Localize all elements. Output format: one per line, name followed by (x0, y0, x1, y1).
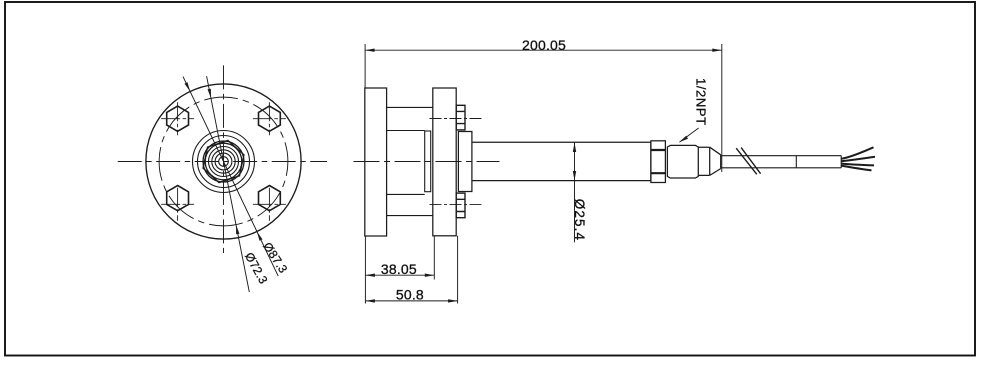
label 1/2NPT arrowhead (679, 136, 688, 143)
svg-text:1/2NPT: 1/2NPT (694, 78, 709, 126)
hub behind plate2 (458, 132, 472, 192)
cable gland collar (698, 147, 709, 175)
label text 1/2NPT (694, 78, 709, 126)
dim text 50.8 (396, 286, 424, 302)
bottom bolt (side view) nut (456, 193, 465, 218)
bolt B2 centermarks (253, 102, 286, 135)
probe cylinder (472, 142, 651, 180)
dim 38.05 arrowheads (365, 274, 434, 277)
cable gland cone (710, 147, 721, 175)
center boss circle r4.8 (219, 157, 229, 167)
dimension text D87.3 (260, 240, 290, 276)
flange plate 2 (right disc) (433, 88, 456, 236)
bolt B3 bottom-left hexagon (167, 186, 189, 211)
bolt B1 centermarks (161, 102, 194, 135)
flange outer circle (146, 84, 301, 239)
vertical centerline of flange (223, 65, 225, 253)
outer sleeve between plates (387, 107, 433, 215)
dimension text D72.3 (242, 250, 271, 286)
diameter dimension line D87.3 (183, 77, 278, 277)
svg-text:38.05: 38.05 (381, 261, 417, 277)
center boss circle r26 (198, 136, 250, 188)
label 1/2NPT leader (680, 128, 699, 142)
D87.3 arrowheads (185, 82, 263, 241)
inner neck between plates (387, 131, 425, 195)
side view horizontal centerline (354, 161, 500, 163)
dim text D25.4 (572, 199, 587, 241)
center boss circle r8.4 (215, 153, 232, 170)
horizontal centerline of flange (118, 161, 327, 163)
wire 2 (841, 157, 875, 162)
center boss circle r15 (209, 147, 239, 177)
dim text 38.05 (381, 261, 417, 277)
bolt B1 top-left hexagon (167, 106, 189, 131)
center boss circle r18.3 (205, 143, 242, 180)
bolt B2 top-right hexagon (259, 106, 281, 131)
dim 50.8 arrowheads (365, 299, 457, 302)
svg-text:Ø25.4: Ø25.4 (572, 199, 587, 241)
diameter dimension line D72.3 (207, 76, 250, 292)
top bolt centerline (430, 118, 485, 120)
dim 50.8 (365, 236, 457, 304)
center boss circle r11.7 (212, 150, 235, 173)
dim 200.05 line (365, 44, 722, 172)
center boss hex nut (201, 137, 246, 187)
cable break symbol (736, 148, 760, 175)
D72.3 arrowheads (208, 89, 240, 235)
hex nut at cylinder end (651, 141, 666, 183)
svg-text:50.8: 50.8 (396, 286, 424, 302)
center boss circle r20.5 (203, 141, 244, 182)
svg-text:200.05: 200.05 (522, 37, 566, 53)
dim 38.05 (365, 236, 434, 304)
wire 4 (841, 166, 871, 171)
bolt B4 bottom-right hexagon (259, 186, 281, 211)
center boss circle r31 (193, 131, 255, 193)
dim D25.4 line (574, 142, 576, 242)
NPT thread section (667, 145, 698, 178)
dim text 200.05 (522, 37, 566, 53)
cable run (721, 156, 842, 168)
flange plate 1 (left disc) (365, 88, 387, 236)
wire 1 (841, 147, 873, 159)
bolt B3 centermarks (161, 188, 194, 221)
top bolt (side view) nut (456, 105, 465, 130)
cable jacket end (840, 156, 842, 169)
bolt circle (dash-dot) (159, 97, 288, 226)
bottom bolt centerline (430, 204, 485, 206)
dim D25.4 arrowheads (573, 143, 576, 181)
raised face ring on plate2 (425, 131, 431, 192)
bolt B4 centermarks (253, 188, 286, 221)
wire 3 (841, 164, 874, 166)
dim 200.05 arrowheads (365, 49, 722, 52)
cable jacket divider (795, 156, 797, 169)
